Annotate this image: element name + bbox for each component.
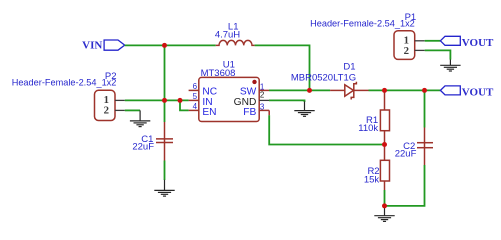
svg-text:Header-Female-2.54_1x2: Header-Female-2.54_1x2 [310,19,415,29]
pin 4 EN [189,102,217,118]
diode D1 [291,62,369,100]
IC U1 MT3608 [199,59,259,121]
svg-text:3: 3 [260,103,265,112]
junction ground node [382,203,387,208]
wire EN branch [180,100,189,110]
svg-text:22uF: 22uF [132,142,154,153]
capacitor C2 [395,128,433,166]
svg-text:FB: FB [243,107,256,118]
svg-text:4.7uH: 4.7uH [215,30,240,41]
wire L1 to SW node [255,45,310,90]
connector P2 [12,71,117,120]
port VOUT bottom [440,86,494,99]
svg-text:110k: 110k [358,123,378,134]
junction C2 top [422,88,427,93]
junction IN-EN branch [178,98,183,103]
wire VIN to L1 [125,44,216,46]
wire P2.2 to ground [125,109,140,111]
pin 3 FB [243,103,269,118]
svg-text:VIN: VIN [82,39,102,51]
svg-text:EN: EN [202,107,216,118]
pin 2 GND [234,91,269,108]
junction SW node [307,88,312,93]
wire P1.2 to ground [425,50,451,59]
pin 5 IN [189,92,213,108]
port VOUT top [440,36,494,49]
svg-text:22uF: 22uF [395,149,417,160]
svg-text:15k: 15k [364,175,380,186]
ground P2 [130,110,150,126]
svg-text:4: 4 [193,102,198,111]
svg-text:VOUT: VOUT [462,37,494,49]
svg-text:5: 5 [193,92,198,101]
wire P2.1 to U1 IN [125,99,189,101]
svg-text:VOUT: VOUT [462,87,494,99]
junction R1 top [382,88,387,93]
svg-text:2: 2 [104,105,109,117]
junction FB node [382,142,387,147]
junction VIN column / IN [162,98,167,103]
svg-text:D1: D1 [343,62,355,73]
wire R2 to ground node [384,190,386,206]
resistor R2 [364,145,390,191]
junction VIN node [162,43,167,48]
svg-text:MBR0520LT1G: MBR0520LT1G [291,72,356,83]
P1 pin 1 stub [415,40,425,42]
ground output [374,206,394,222]
pin 1 SW [240,83,269,98]
wire VIN column down [164,45,166,122]
wire P1.1 to VOUT port [425,40,441,42]
inductor L1 [215,21,255,45]
wire SW pin to node [269,89,310,91]
svg-text:2: 2 [260,91,265,100]
port VIN [82,39,125,51]
ground C1 [154,180,174,196]
wire C2 top [424,90,426,127]
wire FB to divider [269,115,384,144]
resistor R1 [358,90,389,144]
svg-text:Header-Female-2.54_1x2: Header-Female-2.54_1x2 [12,78,117,88]
P2 pin 1 stub [115,99,125,101]
wire SW node to D1 [310,89,331,91]
wire C1 to ground [164,161,166,181]
wire D1 to VOUT [369,89,441,91]
svg-text:2: 2 [404,45,409,57]
wire GND pin to ground [269,100,305,102]
svg-text:6: 6 [193,82,198,91]
wire ground node to C2 bottom [385,165,425,206]
ground P1 [440,59,460,71]
P1 pin 2 stub [415,49,425,51]
pin 6 NC [189,82,218,98]
ground U1 [294,102,314,117]
connector P1 [310,12,416,60]
P2 pin 2 stub [115,109,125,111]
capacitor C1 [132,122,173,161]
